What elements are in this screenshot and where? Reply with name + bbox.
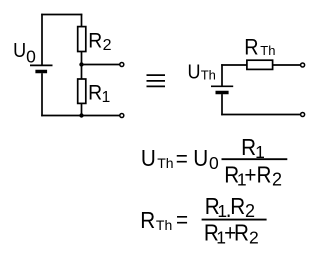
eq1 fraction denominator R1+R2 (224, 162, 282, 190)
svg-text:R: R (234, 220, 249, 246)
wire: left circuit top horizontal (41, 14, 82, 16)
eq1 left side UTh (141, 145, 174, 171)
eq2 fraction denominator R1+R2 (204, 220, 259, 248)
eq2 fraction numerator R1.R2 (205, 193, 255, 222)
voltage source UTh short thick plate (216, 91, 229, 95)
label U0 (source voltage, left circuit) (13, 40, 36, 66)
svg-text:Th: Th (157, 155, 173, 171)
voltage source U0 short thick plate (35, 70, 47, 74)
wire: right circuit bottom horizontal (221, 114, 301, 116)
wire: middle tap to upper-left terminal (82, 64, 120, 66)
svg-text:=: = (176, 145, 188, 171)
wire: right branch vertical from top wire to R2 (81, 14, 83, 27)
wire: left circuit left vertical lower (source bottom lead) (41, 73, 43, 116)
eq1 fraction bar (222, 158, 288, 160)
wire: RTh to upper-right terminal (273, 64, 301, 66)
resistor RTh body (247, 60, 273, 69)
node: bottom junction (79, 113, 83, 117)
equivalence symbol (triple bar) (147, 75, 166, 86)
svg-text:2: 2 (272, 170, 282, 190)
wire: left circuit bottom horizontal (41, 115, 120, 117)
voltage source UTh top lead vertical wire (221, 64, 223, 86)
svg-text:U: U (13, 40, 26, 62)
svg-text:R: R (257, 162, 272, 188)
eq2 fraction bar (202, 219, 267, 221)
wire: left circuit left vertical upper (source top lead) (41, 14, 43, 65)
terminal: left circuit upper output (open circle) (120, 63, 124, 67)
voltage source UTh long plate (211, 85, 233, 87)
eq2 left side RTh (140, 207, 172, 233)
svg-text:0: 0 (26, 47, 36, 67)
svg-text:R: R (244, 35, 258, 59)
voltage source U0 long plate (30, 64, 53, 66)
label R1 (value label of resistor R1) (88, 80, 110, 106)
svg-text:2: 2 (103, 37, 112, 54)
svg-text:1: 1 (102, 89, 111, 106)
wire: UTh bottom lead vertical (221, 94, 223, 115)
node: junction between R2 and R1 (middle tap) (79, 62, 83, 66)
svg-text:R: R (88, 80, 102, 104)
svg-text:Th: Th (201, 67, 216, 82)
terminal: left circuit lower output (open circle) (120, 114, 124, 118)
svg-text:Th: Th (260, 43, 275, 58)
wire: R2 bottom to middle node (81, 51, 83, 64)
eq1 U0 term (193, 145, 219, 173)
terminal: right circuit upper output (open circle) (301, 63, 305, 67)
svg-text:Th: Th (156, 217, 172, 233)
svg-text:+: + (244, 162, 256, 188)
wire: R1 bottom to bottom node (81, 103, 83, 115)
svg-text:R: R (88, 28, 102, 52)
svg-text:U: U (187, 62, 200, 84)
label R2 (value label of resistor R2) (88, 28, 111, 54)
wire: right circuit top horizontal into RTh (221, 64, 247, 66)
svg-text:0: 0 (209, 153, 219, 173)
svg-text:R: R (230, 193, 245, 219)
svg-text:2: 2 (245, 201, 255, 221)
svg-text:R: R (241, 134, 256, 160)
wire: middle node to R1 top (81, 65, 83, 80)
eq1 fraction numerator R1 (241, 134, 265, 162)
terminal: right circuit lower output (open circle) (301, 113, 305, 117)
svg-text:R: R (140, 207, 155, 233)
label UTh (Thevenin source voltage) (187, 62, 215, 84)
svg-text:U: U (141, 145, 156, 171)
svg-text:=: = (176, 206, 188, 232)
svg-text:U: U (193, 145, 208, 171)
label RTh (Thevenin resistance, above resistor) (244, 35, 275, 59)
resistor R1 body (78, 79, 86, 103)
resistor R2 body (78, 27, 86, 52)
svg-text:2: 2 (249, 228, 259, 248)
